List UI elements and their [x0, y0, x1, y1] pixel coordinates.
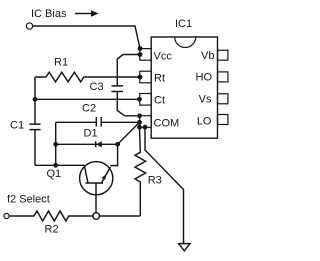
svg-text:Vs: Vs [199, 94, 212, 106]
svg-text:f2 Select: f2 Select [7, 193, 50, 205]
svg-text:C2: C2 [82, 103, 96, 115]
svg-text:C3: C3 [90, 81, 104, 93]
svg-text:HO: HO [196, 72, 213, 84]
svg-text:C1: C1 [10, 120, 24, 132]
svg-text:D1: D1 [84, 128, 98, 140]
svg-text:Q1: Q1 [47, 168, 62, 180]
svg-text:R3: R3 [148, 175, 162, 187]
svg-text:COM: COM [154, 117, 180, 129]
svg-text:Vb: Vb [201, 50, 214, 62]
svg-text:Ct: Ct [154, 95, 165, 107]
svg-text:R2: R2 [45, 223, 59, 235]
svg-text:IC1: IC1 [175, 18, 192, 30]
svg-text:LO: LO [197, 116, 212, 128]
svg-text:IC Bias: IC Bias [31, 8, 67, 20]
svg-text:Rt: Rt [154, 73, 165, 85]
svg-text:R1: R1 [54, 57, 68, 69]
svg-text:Vcc: Vcc [154, 51, 173, 63]
